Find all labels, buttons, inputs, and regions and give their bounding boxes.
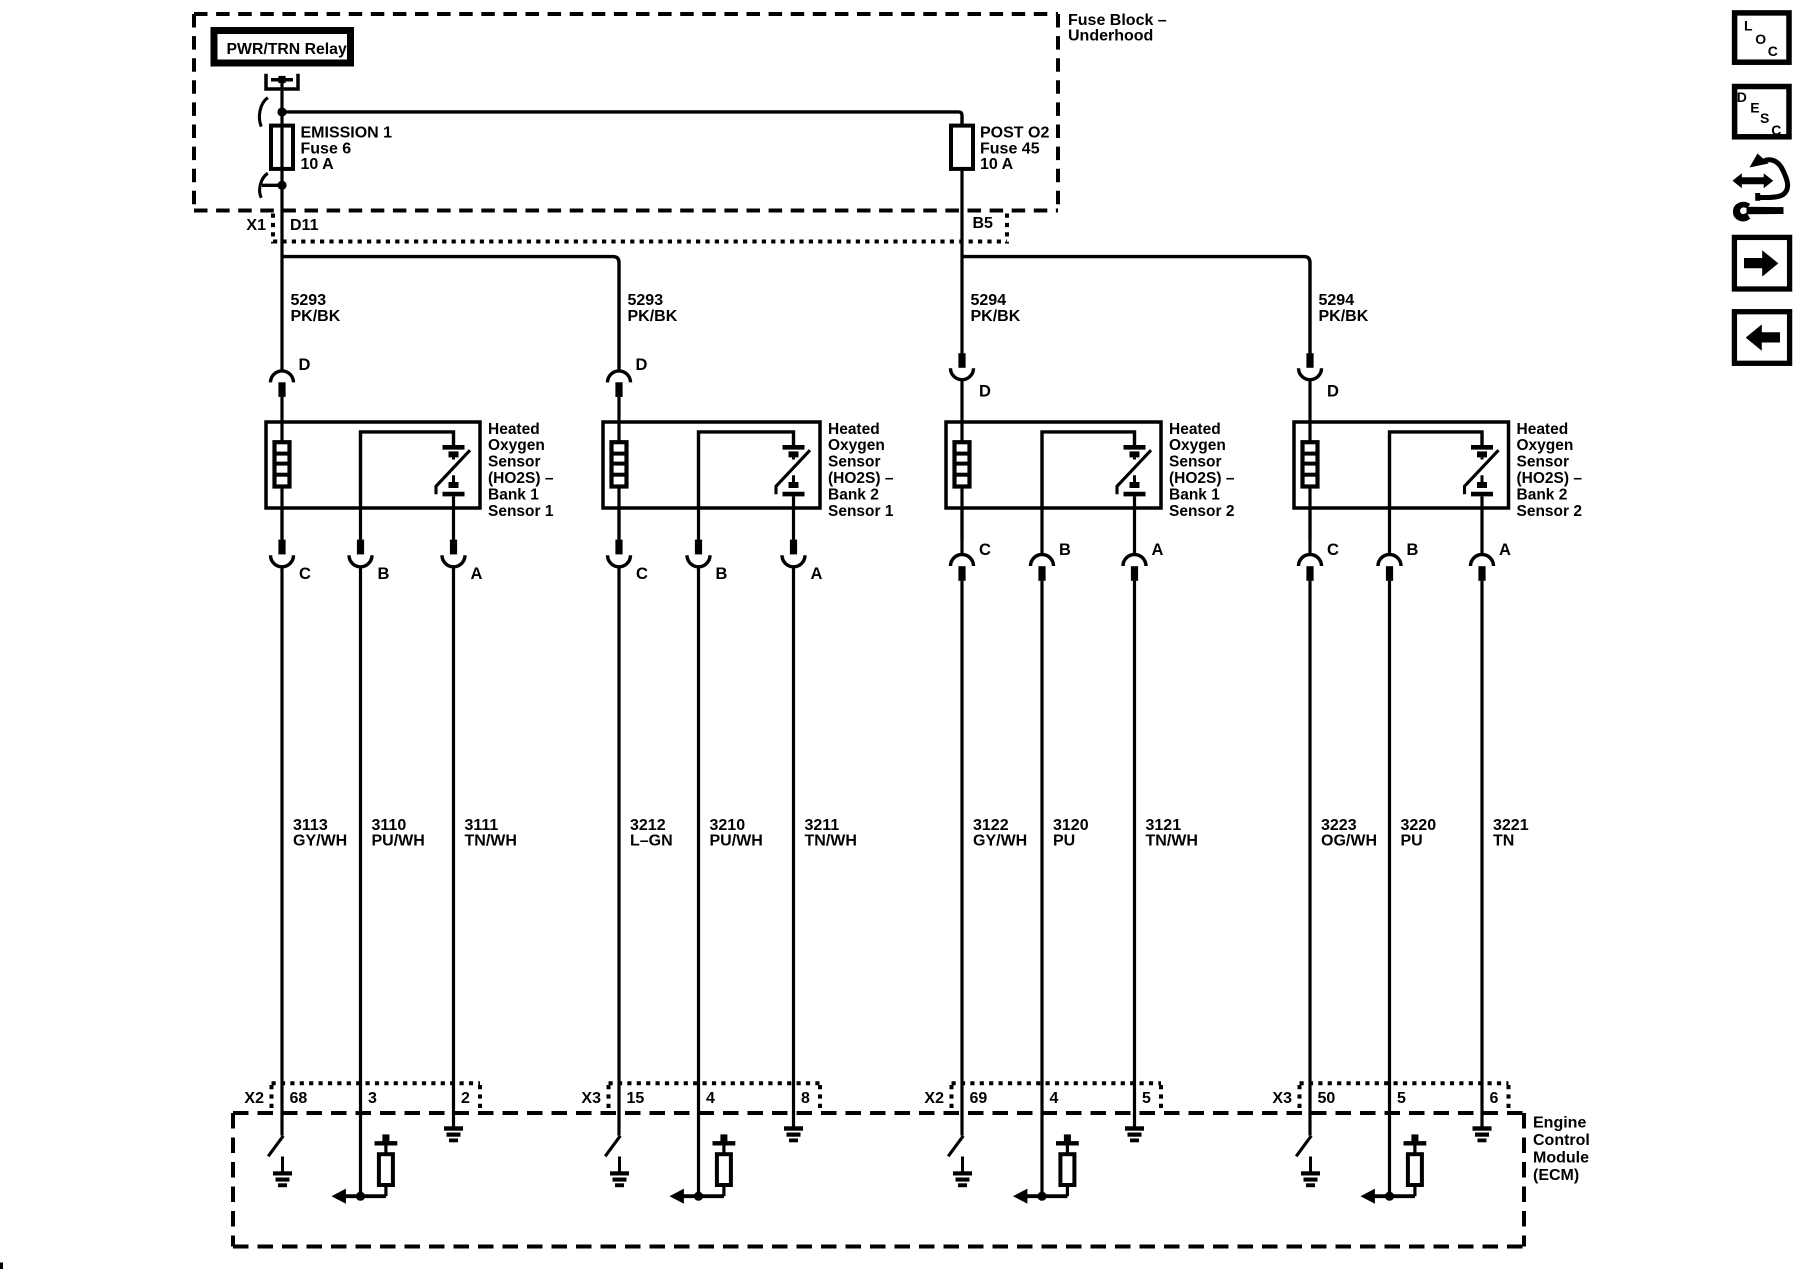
svg-text:3221: 3221 — [1493, 817, 1529, 834]
svg-text:PU: PU — [1401, 833, 1423, 850]
wire HO2S B2S2 pin A out of box — [1480, 508, 1483, 554]
svg-text:69: 69 — [970, 1090, 988, 1107]
wire from connector C to ECM (sensor 1) — [280, 567, 283, 1136]
sensor name label: Heated Oxygen Sensor (HO2S) - Bank 1 Sensor 1 — [488, 421, 554, 520]
internal signal wire from pin B (sensor 1) — [361, 432, 454, 509]
svg-text:Bank 1: Bank 1 — [488, 486, 539, 503]
svg-text:O: O — [1755, 31, 1766, 47]
svg-text:5294: 5294 — [971, 292, 1007, 309]
svg-text:B5: B5 — [973, 215, 994, 232]
connector A: female arc (sensor 2) — [782, 555, 805, 567]
connector C: female arc (sensor 4) — [1299, 555, 1322, 567]
svg-text:PU: PU — [1053, 833, 1075, 850]
connector D to HO2S B2S1: male pin — [615, 382, 622, 397]
wire from connector C to ECM (sensor 4) — [1308, 581, 1311, 1136]
svg-text:X3: X3 — [581, 1090, 601, 1107]
ECM internal ground (pin 6) — [1473, 1126, 1492, 1142]
svg-text:Sensor 2: Sensor 2 — [1169, 503, 1234, 520]
heater element inside HO2S B2S1 — [612, 442, 627, 486]
svg-text:3220: 3220 — [1401, 817, 1437, 834]
connector A: female arc (sensor 3) — [1123, 555, 1146, 567]
junction dot at relay output — [277, 107, 286, 116]
wire HO2S B2S2 pin B out of box — [1388, 508, 1391, 554]
connector B: male pin (sensor 2) — [695, 540, 702, 555]
branch wire to HO2S B2S2 — [962, 257, 1310, 354]
wire from connector B to ECM (sensor 2) — [697, 567, 700, 1197]
connector B: male pin (sensor 4) — [1386, 566, 1393, 581]
connector B: female arc (sensor 1) — [349, 555, 372, 567]
svg-text:Heated: Heated — [1169, 421, 1221, 438]
svg-text:8: 8 — [801, 1090, 810, 1107]
wire from relay through EMISSION fuse down to HO2S B1S1 — [280, 80, 283, 371]
connector A: male pin (sensor 1) — [450, 540, 457, 555]
connector D to HO2S B1S1: female arc — [271, 371, 294, 383]
svg-text:3111: 3111 — [465, 817, 499, 834]
heater element inside HO2S B1S1 — [275, 442, 290, 486]
svg-text:A: A — [1499, 541, 1511, 559]
svg-text:3223: 3223 — [1321, 817, 1357, 834]
wire HO2S B1S2 pin A out of box — [1133, 508, 1136, 554]
circuit-continues hook below EMISSION fuse — [260, 173, 268, 198]
svg-text:C: C — [1771, 122, 1781, 138]
sensing cell symbol (sensor 1) — [436, 447, 470, 509]
previous page arrow icon — [1734, 312, 1789, 364]
wire from connector C to ECM (sensor 3) — [960, 581, 963, 1136]
svg-text:C: C — [1768, 43, 1778, 59]
svg-text:Engine: Engine — [1533, 1114, 1586, 1131]
sensing cell symbol (sensor 4) — [1465, 447, 1499, 509]
svg-text:GY/WH: GY/WH — [293, 833, 347, 850]
connector A: male pin (sensor 4) — [1478, 566, 1485, 581]
svg-text:Bank 2: Bank 2 — [1517, 486, 1568, 503]
wire from connector B to ECM (sensor 4) — [1388, 581, 1391, 1196]
circuit-continues hook at relay junction — [259, 98, 267, 127]
svg-text:5: 5 — [1397, 1090, 1406, 1107]
svg-text:PWR/TRN Relay: PWR/TRN Relay — [227, 41, 347, 58]
svg-text:Bank 2: Bank 2 — [828, 486, 879, 503]
wire 5293/5294 PK/BK label (sensor 2) — [628, 292, 678, 325]
ECM internal pull-up to B+ (pin 4) — [670, 1134, 736, 1203]
heated oxygen sensor box HO2S B1S2 — [946, 422, 1161, 508]
connector B: female arc (sensor 2) — [687, 555, 710, 567]
wire HO2S B1S2 pin C out of box — [960, 508, 963, 554]
svg-text:X3: X3 — [1272, 1090, 1292, 1107]
svg-text:PK/BK: PK/BK — [291, 308, 341, 325]
wire from connector A to ECM (sensor 1) — [452, 567, 455, 1127]
svg-text:Sensor: Sensor — [488, 454, 541, 471]
sensing cell symbol (sensor 2) — [776, 447, 810, 509]
svg-text:Oxygen: Oxygen — [1517, 437, 1574, 454]
svg-text:L: L — [1744, 18, 1753, 34]
fuse EMISSION 1 Fuse 6 10A — [271, 125, 392, 174]
svg-text:TN/WH: TN/WH — [1146, 833, 1198, 850]
sensor name label: Heated Oxygen Sensor (HO2S) - Bank 2 Sensor 2 — [1517, 421, 1583, 520]
ECM connector band X3 (sensor 4) — [1300, 1083, 1509, 1111]
ECM internal ground (pin 2) — [444, 1126, 463, 1142]
wire HO2S B2S2 pin C out of box — [1308, 508, 1311, 554]
svg-text:(HO2S) –: (HO2S) – — [488, 470, 554, 487]
next page arrow icon — [1734, 237, 1789, 289]
svg-text:B: B — [1407, 541, 1419, 559]
svg-text:POST O2: POST O2 — [980, 125, 1049, 142]
svg-text:X2: X2 — [244, 1090, 264, 1107]
svg-text:Module: Module — [1533, 1149, 1589, 1166]
branch wire to HO2S B2S1 — [282, 257, 619, 371]
connector C: male pin (sensor 4) — [1306, 566, 1313, 581]
branch tick to other circuits — [262, 184, 282, 187]
LOC navigation icon — [1735, 13, 1789, 62]
svg-text:Heated: Heated — [828, 421, 880, 438]
junction dot below EMISSION fuse — [277, 181, 286, 190]
ECM internal pull-up to B+ (pin 3) — [332, 1134, 398, 1203]
svg-text:Fuse 6: Fuse 6 — [301, 140, 352, 157]
svg-text:68: 68 — [290, 1090, 308, 1107]
svg-text:Oxygen: Oxygen — [828, 437, 885, 454]
svg-text:(ECM): (ECM) — [1533, 1167, 1579, 1184]
feed wire from relay junction to POST O2 fuse — [282, 112, 962, 126]
wire HO2S B1S1 pin C out of box — [280, 508, 283, 540]
connector A: female arc (sensor 1) — [442, 555, 465, 567]
svg-text:B: B — [378, 565, 390, 583]
svg-text:50: 50 — [1318, 1090, 1336, 1107]
svg-text:Oxygen: Oxygen — [488, 437, 545, 454]
svg-text:5293: 5293 — [628, 292, 664, 309]
wire from connector A to ECM (sensor 4) — [1480, 581, 1483, 1127]
connector D to HO2S B1S2: female arc — [951, 368, 974, 380]
wire pin D into HO2S B2S2 — [1308, 380, 1311, 424]
fuse POST O2 Fuse 45 10A — [951, 125, 1049, 174]
heater wire through box (sensor 1) — [280, 422, 283, 540]
ECM label: Engine Control Module (ECM) — [1533, 1114, 1590, 1184]
connector C: male pin (sensor 2) — [615, 540, 622, 555]
svg-text:PK/BK: PK/BK — [971, 308, 1021, 325]
wire circuit labels (sensor 1) — [293, 817, 517, 850]
svg-text:5294: 5294 — [1319, 292, 1355, 309]
connector D to HO2S B2S1: female arc — [608, 371, 631, 383]
svg-text:Sensor 1: Sensor 1 — [828, 503, 894, 520]
connector B: female arc (sensor 4) — [1378, 555, 1401, 567]
wire 5293/5294 PK/BK label (sensor 4) — [1319, 292, 1369, 325]
heated oxygen sensor box HO2S B1S1 — [266, 422, 480, 508]
svg-text:3120: 3120 — [1053, 817, 1089, 834]
svg-text:D: D — [299, 356, 311, 374]
svg-text:3210: 3210 — [710, 817, 746, 834]
wire HO2S B2S1 pin A out of box — [792, 508, 795, 540]
svg-text:A: A — [471, 565, 483, 583]
svg-text:D: D — [1327, 383, 1339, 401]
svg-text:3: 3 — [368, 1090, 377, 1107]
svg-text:3211: 3211 — [805, 817, 840, 834]
svg-text:GY/WH: GY/WH — [973, 833, 1027, 850]
connector B: male pin (sensor 3) — [1038, 566, 1045, 581]
ECM connector band X2 (sensor 1) — [272, 1083, 481, 1111]
wire pin D into HO2S B1S1 — [280, 397, 283, 424]
ECM connector band X2 (sensor 3) — [952, 1083, 1162, 1111]
ECM internal switch to ground (pin 15) — [605, 1136, 629, 1187]
internal signal wire from pin B (sensor 2) — [699, 432, 794, 509]
connector B: male pin (sensor 1) — [357, 540, 364, 555]
svg-text:Bank 1: Bank 1 — [1169, 486, 1220, 503]
ECM internal ground (pin 5) — [1125, 1126, 1144, 1142]
svg-text:D: D — [636, 356, 648, 374]
connector D to HO2S B2S2: female arc — [1299, 368, 1322, 380]
Engine Control Module (ECM) dashed box — [233, 1113, 1524, 1247]
svg-text:3122: 3122 — [973, 817, 1009, 834]
svg-text:15: 15 — [627, 1090, 645, 1107]
wire HO2S B2S1 pin C out of box — [617, 508, 620, 540]
fuse block connector band X1 — [273, 214, 1007, 244]
ECM connector band X3 (sensor 2) — [609, 1083, 821, 1111]
svg-text:3113: 3113 — [293, 817, 328, 834]
connector B: female arc (sensor 3) — [1031, 555, 1054, 567]
svg-text:10 A: 10 A — [980, 156, 1014, 173]
heated oxygen sensor box HO2S B2S1 — [603, 422, 820, 508]
svg-text:TN/WH: TN/WH — [465, 833, 517, 850]
connector D to HO2S B1S2: male pin — [958, 353, 965, 368]
heater element inside HO2S B1S2 — [955, 442, 970, 486]
wire HO2S B1S2 pin B out of box — [1040, 508, 1043, 554]
svg-text:PK/BK: PK/BK — [1319, 308, 1369, 325]
svg-text:6: 6 — [1490, 1090, 1499, 1107]
svg-text:Heated: Heated — [1517, 421, 1569, 438]
connector D to HO2S B1S1: male pin — [278, 382, 285, 397]
wire HO2S B1S1 pin B out of box — [359, 508, 362, 540]
heater wire through box (sensor 3) — [960, 422, 963, 540]
connector C: male pin (sensor 3) — [958, 566, 965, 581]
svg-text:D: D — [1737, 89, 1747, 105]
ECM internal switch to ground (pin 69) — [948, 1136, 972, 1187]
svg-text:Sensor 1: Sensor 1 — [488, 503, 554, 520]
DESC navigation icon — [1735, 87, 1789, 139]
wire pin D into HO2S B1S2 — [960, 380, 963, 424]
svg-text:PU/WH: PU/WH — [372, 833, 425, 850]
svg-text:S: S — [1760, 110, 1769, 126]
svg-text:D11: D11 — [290, 217, 319, 234]
svg-text:Sensor: Sensor — [1169, 454, 1222, 471]
fuse block label: Fuse Block - Underhood — [1068, 12, 1167, 45]
fuse block - underhood dashed box — [194, 14, 1058, 211]
svg-text:EMISSION 1: EMISSION 1 — [301, 125, 393, 142]
svg-text:Sensor: Sensor — [828, 454, 881, 471]
svg-text:(HO2S) –: (HO2S) – — [1517, 470, 1583, 487]
connector A: male pin (sensor 2) — [790, 540, 797, 555]
heater wire through box (sensor 2) — [617, 422, 620, 540]
svg-text:5293: 5293 — [291, 292, 327, 309]
svg-text:C: C — [1327, 541, 1339, 559]
internal signal wire from pin B (sensor 4) — [1390, 432, 1483, 509]
svg-text:L–GN: L–GN — [630, 833, 673, 850]
svg-text:C: C — [979, 541, 991, 559]
relay contact symbol — [266, 74, 298, 89]
svg-text:C: C — [636, 565, 648, 583]
connector A: female arc (sensor 4) — [1471, 555, 1494, 567]
wiring navigation tool icon (arrows and wrench) — [1733, 154, 1788, 221]
sensing cell symbol (sensor 3) — [1117, 447, 1151, 509]
svg-text:Sensor 2: Sensor 2 — [1517, 503, 1582, 520]
connector A: male pin (sensor 3) — [1131, 566, 1138, 581]
svg-text:3121: 3121 — [1146, 817, 1182, 834]
PWR/TRN Relay box — [214, 31, 351, 64]
svg-text:PK/BK: PK/BK — [628, 308, 678, 325]
wire from connector C to ECM (sensor 2) — [617, 567, 620, 1136]
svg-text:D: D — [979, 383, 991, 401]
wire pin D into HO2S B2S1 — [617, 397, 620, 424]
svg-text:PU/WH: PU/WH — [710, 833, 763, 850]
svg-text:(HO2S) –: (HO2S) – — [1169, 470, 1235, 487]
svg-text:Control: Control — [1533, 1132, 1590, 1149]
wire from connector B to ECM (sensor 1) — [359, 567, 362, 1197]
svg-text:Sensor: Sensor — [1517, 454, 1570, 471]
connector C: female arc (sensor 3) — [951, 555, 974, 567]
wire from connector A to ECM (sensor 3) — [1133, 581, 1136, 1127]
sensor name label: Heated Oxygen Sensor (HO2S) - Bank 1 Sensor 2 — [1169, 421, 1235, 520]
ECM internal ground (pin 8) — [784, 1126, 803, 1142]
stray mark at left edge — [0, 1263, 3, 1270]
svg-text:X1: X1 — [246, 217, 266, 234]
wire circuit labels (sensor 3) — [973, 817, 1198, 850]
sensor name label: Heated Oxygen Sensor (HO2S) - Bank 2 Sensor 1 — [828, 421, 894, 520]
svg-text:C: C — [299, 565, 311, 583]
wire 5293/5294 PK/BK label (sensor 1) — [291, 292, 341, 325]
svg-text:(HO2S) –: (HO2S) – — [828, 470, 894, 487]
svg-text:4: 4 — [706, 1090, 715, 1107]
svg-text:5: 5 — [1142, 1090, 1151, 1107]
svg-text:B: B — [1059, 541, 1071, 559]
svg-text:TN/WH: TN/WH — [805, 833, 857, 850]
svg-text:E: E — [1750, 99, 1759, 115]
svg-text:A: A — [811, 565, 823, 583]
connector C: male pin (sensor 1) — [278, 540, 285, 555]
wire circuit labels (sensor 2) — [630, 817, 857, 850]
svg-text:TN: TN — [1493, 833, 1514, 850]
connector C: female arc (sensor 2) — [608, 555, 631, 567]
svg-text:4: 4 — [1050, 1090, 1059, 1107]
svg-text:3212: 3212 — [630, 817, 666, 834]
svg-text:Underhood: Underhood — [1068, 28, 1153, 45]
ECM internal pull-up to B+ (pin 4) — [1013, 1134, 1079, 1203]
svg-text:Fuse 45: Fuse 45 — [980, 140, 1040, 157]
ECM internal switch to ground (pin 68) — [268, 1136, 292, 1187]
svg-text:Heated: Heated — [488, 421, 540, 438]
svg-text:Oxygen: Oxygen — [1169, 437, 1226, 454]
svg-text:3110: 3110 — [372, 817, 407, 834]
wire from POST O2 fuse down through B5 — [960, 169, 963, 354]
svg-text:2: 2 — [461, 1090, 470, 1107]
wire HO2S B1S1 pin A out of box — [452, 508, 455, 540]
svg-text:X2: X2 — [924, 1090, 944, 1107]
wire circuit labels (sensor 4) — [1321, 817, 1529, 850]
connector D to HO2S B2S2: male pin — [1306, 353, 1313, 368]
heater element inside HO2S B2S2 — [1303, 442, 1318, 486]
ECM internal pull-up to B+ (pin 5) — [1361, 1134, 1427, 1203]
svg-text:OG/WH: OG/WH — [1321, 833, 1377, 850]
heated oxygen sensor box HO2S B2S2 — [1294, 422, 1509, 508]
wire 5293/5294 PK/BK label (sensor 3) — [971, 292, 1021, 325]
wire from connector B to ECM (sensor 3) — [1040, 581, 1043, 1196]
svg-text:Fuse Block –: Fuse Block – — [1068, 12, 1167, 29]
svg-text:A: A — [1152, 541, 1164, 559]
connector C: female arc (sensor 1) — [271, 555, 294, 567]
heater wire through box (sensor 4) — [1308, 422, 1311, 540]
wire HO2S B2S1 pin B out of box — [697, 508, 700, 540]
svg-text:B: B — [716, 565, 728, 583]
svg-text:10 A: 10 A — [301, 156, 335, 173]
wire from connector A to ECM (sensor 2) — [792, 567, 795, 1127]
ECM internal switch to ground (pin 50) — [1296, 1136, 1320, 1187]
internal signal wire from pin B (sensor 3) — [1042, 432, 1135, 509]
